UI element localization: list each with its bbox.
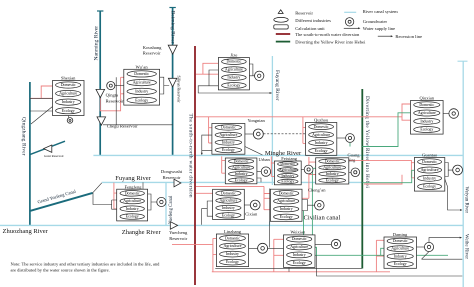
- svg-text:Domestic: Domestic: [226, 60, 241, 64]
- wire Yongnian diagonal recession: [245, 147, 263, 156]
- wire red Guantao feeder: [340, 160, 414, 177]
- svg-text:Industry: Industry: [280, 207, 293, 211]
- svg-text:Agriculture: Agriculture: [219, 199, 237, 203]
- svg-text:Jize: Jize: [230, 52, 237, 57]
- reservoir Qingta Reservoir: [96, 89, 105, 97]
- calculation unit Quzhou: [306, 123, 337, 156]
- wire Urban recession: [257, 178, 261, 182]
- svg-text:Industry: Industry: [423, 176, 436, 180]
- wire Fuyang River line: [102, 181, 363, 183]
- svg-text:Agriculture: Agriculture: [279, 168, 297, 172]
- calculation unit Qiuxian: [411, 101, 444, 135]
- svg-text:Reservoir: Reservoir: [169, 236, 187, 241]
- svg-text:Fengfeng: Fengfeng: [125, 184, 143, 189]
- svg-text:Water supply line: Water supply line: [363, 26, 395, 31]
- svg-text:Domestic: Domestic: [393, 239, 408, 243]
- groundwater Quzhou: [346, 134, 355, 143]
- wire bottom recession to Yellow line: [215, 267, 361, 269]
- wire Nanming River line: [99, 11, 101, 155]
- calculation unit Cheng'an: [270, 189, 302, 221]
- svg-text:Ecology: Ecology: [222, 148, 235, 152]
- arrowhead Yongnian recession: [201, 153, 203, 155]
- svg-text:Diverting the Yellow River int: Diverting the Yellow River into Hebei: [364, 96, 370, 188]
- svg-text:Siliyan Reservoir: Siliyan Reservoir: [177, 76, 181, 104]
- wire green Daming feeder: [381, 248, 384, 255]
- svg-text:Agriculture: Agriculture: [232, 166, 250, 170]
- svg-text:Ecology: Ecology: [227, 84, 240, 88]
- wire Cixian bracket: [202, 201, 213, 225]
- svg-text:Beiming River: Beiming River: [169, 11, 175, 44]
- svg-text:Domestic: Domestic: [234, 159, 249, 163]
- svg-text:Urban: Urban: [259, 157, 271, 162]
- wire Daming recession to Weihe: [422, 252, 463, 260]
- calculation unit Guantao: [414, 158, 444, 192]
- svg-text:Industry: Industry: [222, 141, 235, 145]
- svg-text:Industry: Industry: [326, 172, 339, 176]
- wire canal to Fuyang link: [93, 183, 102, 193]
- wire Feixiang groundwater link: [301, 169, 304, 171]
- svg-text:Weiyun River: Weiyun River: [464, 187, 469, 214]
- wire red Weixian feeder: [274, 239, 284, 271]
- svg-text:Civilian canal: Civilian canal: [304, 215, 341, 222]
- svg-text:Agriculture: Agriculture: [225, 68, 243, 72]
- legend water supply swatch: [344, 27, 359, 29]
- svg-text:Koushang: Koushang: [143, 45, 162, 50]
- svg-text:Agriculture: Agriculture: [224, 244, 242, 248]
- legend recession swatch: [378, 35, 392, 37]
- svg-text:Weihe River: Weihe River: [464, 234, 469, 259]
- svg-text:Industry: Industry: [227, 76, 240, 80]
- wire Linzhang-Weixian groundwater link: [249, 247, 284, 249]
- svg-text:Shexian: Shexian: [61, 76, 76, 81]
- svg-text:Agriculture: Agriculture: [123, 199, 141, 203]
- wire Zhuozhang-Zhanghe river line: [0, 224, 463, 226]
- svg-text:Domestic: Domestic: [292, 237, 307, 241]
- reservoir Siliyan Reservoir: [168, 78, 176, 87]
- wire Fengfeng right bracket: [148, 194, 157, 210]
- wire Shexian groundwater link: [68, 116, 70, 118]
- wire Jize bracket: [198, 70, 272, 93]
- svg-text:Ecology: Ecology: [293, 261, 306, 265]
- calculation unit Yongnian: [212, 124, 245, 155]
- legend calculation unit symbol: [274, 25, 288, 29]
- wire Weiyun-Weihe river line: [462, 61, 464, 287]
- svg-text:Agriculture: Agriculture: [290, 245, 308, 249]
- svg-text:Domestic: Domestic: [225, 236, 240, 240]
- svg-text:Domestic: Domestic: [280, 162, 295, 166]
- wire Minghe River line: [93, 154, 462, 156]
- groundwater Daming: [424, 242, 433, 251]
- svg-text:Gutai Reservoir: Gutai Reservoir: [44, 154, 64, 158]
- calculation unit Shexian: [53, 81, 85, 116]
- svg-text:Reservoir: Reservoir: [163, 175, 181, 180]
- wire red Quzhou feeder: [303, 117, 306, 144]
- svg-text:Guang: Guang: [348, 153, 361, 158]
- wire Wu'an lower bracket: [115, 77, 117, 125]
- svg-text:Wu’an: Wu’an: [136, 64, 149, 69]
- calculation unit Urban: [225, 158, 257, 184]
- svg-text:Ecology: Ecology: [326, 179, 339, 183]
- wire diverting Yellow River line: [361, 89, 363, 269]
- svg-text:Quzhou: Quzhou: [314, 118, 329, 123]
- reservoir Yuecheng Reservoir: [170, 222, 177, 230]
- svg-text:Agriculture: Agriculture: [312, 133, 330, 137]
- calculation unit Feixiang: [274, 161, 301, 185]
- wire Civilian canal line: [271, 56, 273, 185]
- svg-text:Domestic: Domestic: [61, 83, 76, 87]
- svg-text:Feixiang: Feixiang: [281, 156, 297, 161]
- wire Yongnian bracket: [202, 135, 212, 155]
- svg-text:Yongnian: Yongnian: [248, 118, 266, 123]
- wire red Linzhang feeder: [172, 238, 216, 271]
- calculation unit Daming: [384, 237, 417, 268]
- svg-text:Weixian: Weixian: [290, 230, 306, 235]
- groundwater Guangping: [351, 168, 360, 177]
- svg-text:Agriculture: Agriculture: [421, 168, 439, 172]
- svg-text:Ecology: Ecology: [280, 215, 293, 219]
- svg-text:Industry: Industry: [226, 252, 239, 256]
- svg-text:Industry: Industry: [62, 100, 75, 104]
- svg-text:Agriculture: Agriculture: [277, 199, 295, 203]
- groundwater Yongnian: [253, 129, 263, 139]
- svg-text:Yuefeng Canal: Yuefeng Canal: [169, 195, 174, 224]
- wire Chengan groundwater bracket: [302, 200, 315, 211]
- svg-text:Industry: Industry: [235, 172, 248, 176]
- svg-text:Industry: Industry: [222, 206, 235, 210]
- wire red Daming feeder: [376, 240, 384, 271]
- wire green Weixian feeder: [315, 247, 317, 255]
- wire Wu'an groundwater link: [115, 85, 124, 87]
- groundwater Feixiang: [304, 165, 313, 174]
- svg-text:Recession line: Recession line: [395, 34, 422, 39]
- svg-text:Ecology: Ecology: [226, 260, 239, 264]
- groundwater Jize: [255, 71, 264, 80]
- svg-text:Ecology: Ecology: [235, 178, 248, 182]
- wire red trunk Chengan: [196, 186, 270, 209]
- svg-text:Industry: Industry: [420, 119, 433, 123]
- wire south-to-north diversion line: [194, 46, 196, 285]
- groundwater Urban: [261, 167, 270, 176]
- svg-text:Agriculture: Agriculture: [418, 111, 436, 115]
- wire red Qiuxian feeder: [402, 104, 411, 120]
- wire Guangping groundwater link: [349, 171, 351, 173]
- wire Nanming top tick: [97, 10, 103, 12]
- wire green Quzhou groundwater link: [349, 143, 351, 147]
- groundwater Wu'an: [107, 82, 115, 90]
- svg-text:Agriculture: Agriculture: [323, 166, 341, 170]
- svg-text:Groundwater: Groundwater: [363, 19, 388, 24]
- wire red Cixian feeder: [196, 192, 213, 194]
- calculation unit Guangping: [316, 158, 349, 184]
- arrowhead Guantao recession arrow: [460, 209, 462, 211]
- wire Guantao recession: [445, 179, 462, 210]
- legend industries symbol: [274, 17, 288, 22]
- svg-text:Zhanghe River: Zhanghe River: [122, 229, 162, 236]
- svg-text:Ecology: Ecology: [315, 149, 328, 153]
- svg-text:Ecology: Ecology: [135, 98, 148, 102]
- wire red trunk to Qiuxian: [196, 116, 402, 118]
- calculation unit Fengfeng: [117, 189, 148, 221]
- svg-text:The south-to-north water diver: The south-to-north water diversion: [187, 114, 193, 198]
- svg-text:Diverting the Yellow River int: Diverting the Yellow River into Hebei: [295, 40, 366, 45]
- svg-text:Domestic: Domestic: [221, 191, 236, 195]
- arrowhead Jize recession: [270, 92, 272, 94]
- wire red Shexian feeder: [30, 86, 53, 98]
- wire Guantao groundwater bracket: [445, 163, 453, 177]
- wire red Yongnian feeder: [209, 117, 212, 143]
- arrowhead legend recession arrow: [391, 35, 393, 37]
- svg-text:Ecology: Ecology: [423, 185, 436, 189]
- svg-text:Linzhang: Linzhang: [224, 229, 242, 234]
- svg-text:Fuyang River: Fuyang River: [115, 175, 151, 182]
- svg-text:Dongwushi: Dongwushi: [161, 169, 183, 174]
- reservoir Gutai Reservoir: [44, 145, 52, 152]
- svg-text:Ecology: Ecology: [62, 109, 75, 113]
- arrowhead legend water supply arrow: [358, 27, 360, 29]
- svg-text:Domestic: Domestic: [221, 126, 236, 130]
- wire Cixian groundwater link: [244, 204, 250, 206]
- wire Fengfeng left bracket: [93, 193, 117, 209]
- calculation unit Cixian: [213, 189, 245, 219]
- legend reservoir symbol: [278, 10, 283, 14]
- svg-text:Domestic: Domestic: [422, 160, 437, 164]
- wire Urban groundwater link: [257, 171, 261, 173]
- wire Grand Yuefeng Canal line: [30, 193, 92, 211]
- svg-text:Guantao: Guantao: [422, 152, 438, 157]
- svg-text:Ecology: Ecology: [222, 213, 235, 217]
- wire Beiming top tick: [169, 7, 175, 9]
- svg-text:Fuyang River: Fuyang River: [274, 70, 280, 101]
- svg-text:Industry: Industry: [126, 207, 139, 211]
- wire green to Guangping agriculture: [312, 168, 315, 255]
- svg-text:Nanming River: Nanming River: [94, 26, 100, 61]
- svg-text:Industry: Industry: [293, 253, 306, 257]
- reservoir Chegu Reservoir: [97, 117, 106, 125]
- svg-text:Agriculture: Agriculture: [59, 92, 77, 96]
- svg-text:Zhuozhang River: Zhuozhang River: [3, 228, 49, 235]
- svg-text:Reservoir: Reservoir: [143, 50, 161, 55]
- groundwater Fengfeng: [157, 197, 166, 206]
- legend yellow-river swatch: [276, 41, 290, 43]
- groundwater Shexian: [67, 118, 73, 124]
- wire Qiuxian groundwater link: [443, 113, 449, 115]
- groundwater Guantao: [453, 165, 463, 175]
- svg-text:Industry: Industry: [135, 90, 148, 94]
- wire red Jize feeder: [196, 63, 218, 74]
- wire Weixian bottom link: [288, 267, 290, 271]
- legend south-to-north swatch: [276, 33, 290, 35]
- reservoir Koushang Reservoir: [168, 45, 177, 54]
- svg-text:Agriculture: Agriculture: [391, 247, 409, 251]
- calculation unit Wu'an: [124, 69, 160, 105]
- wire Yongnian dashed: [264, 133, 306, 135]
- wire green bottom trunk: [298, 254, 448, 256]
- svg-text:ping: ping: [348, 159, 355, 163]
- svg-text:Agriculture: Agriculture: [219, 133, 237, 137]
- svg-text:Domestic: Domestic: [134, 72, 149, 76]
- svg-text:Cixian: Cixian: [245, 212, 258, 217]
- groundwater Cixian: [250, 200, 260, 210]
- wire Weixian recession to Weihe: [317, 255, 463, 276]
- svg-text:Qingzhang River: Qingzhang River: [20, 117, 26, 156]
- wire civilian canal stub: [269, 221, 271, 225]
- svg-text:are distributed by the water s: are distributed by the water source show…: [11, 268, 110, 273]
- wire Beiming River line: [172, 8, 174, 156]
- wire Quzhou groundwater link2: [337, 137, 346, 139]
- wire Wu'an to Siliyan: [160, 77, 170, 94]
- wire red Guangping-Chengan link: [264, 197, 309, 199]
- wire red Qingta to Wu'an: [100, 77, 124, 111]
- svg-text:Different industries: Different industries: [295, 18, 331, 23]
- wire Urban-Cixian recession south: [268, 189, 270, 248]
- svg-text:Industry: Industry: [281, 174, 294, 178]
- svg-text:Chegu Reservoir: Chegu Reservoir: [107, 124, 138, 129]
- wire Qingzhang River line: [29, 82, 31, 225]
- svg-text:Industry: Industry: [394, 254, 407, 258]
- svg-text:Reservoir: Reservoir: [295, 11, 313, 16]
- wire Jize groundwater link: [249, 64, 254, 76]
- wire red Feixiang feeder: [271, 156, 274, 176]
- reservoir Dongwushi Reservoir: [174, 179, 181, 187]
- svg-text:Calculation unit: Calculation unit: [295, 26, 325, 31]
- svg-text:Reservoir: Reservoir: [106, 98, 124, 103]
- svg-text:Qingta: Qingta: [106, 92, 119, 97]
- wire red Urban feeder: [222, 156, 226, 173]
- svg-text:Agriculture: Agriculture: [133, 81, 151, 85]
- wire Weixian groundwater link: [315, 243, 331, 245]
- wire Gutai tributary: [30, 141, 65, 154]
- wire Daming recession: [429, 238, 461, 243]
- svg-text:Cheng’an: Cheng’an: [308, 187, 326, 192]
- groundwater Cheng'an: [315, 200, 325, 210]
- calculation unit Jize: [218, 58, 249, 90]
- svg-text:Daming: Daming: [393, 232, 408, 237]
- arrowhead Daming recession arrow: [460, 237, 462, 239]
- svg-text:Domestic: Domestic: [279, 191, 294, 195]
- svg-text:Ecology: Ecology: [394, 262, 407, 266]
- wire Yuefeng Canal line: [165, 182, 167, 225]
- calculation unit Linzhang: [216, 234, 248, 267]
- groundwater Weixian: [331, 239, 340, 248]
- wire green to Qiuxian agriculture: [362, 113, 410, 147]
- groundwater legend: [345, 18, 353, 26]
- wire Chegu outflow: [103, 124, 173, 126]
- svg-text:Ecology: Ecology: [126, 215, 139, 219]
- legend river canal swatch: [344, 11, 356, 13]
- wire red Fengfeng feeder: [114, 183, 117, 209]
- svg-text:Domestic: Domestic: [325, 159, 340, 163]
- svg-text:Domestic: Domestic: [419, 103, 434, 107]
- wire red Guantao lower: [364, 175, 402, 184]
- wire green to Chengan: [303, 211, 305, 256]
- wire Weiyun top tick: [458, 60, 468, 62]
- svg-text:Qiuxian: Qiuxian: [420, 95, 435, 100]
- wire Shexian to Qingzhang links: [30, 98, 53, 124]
- groundwater Linzhang: [258, 243, 268, 253]
- svg-text:River canal system: River canal system: [363, 9, 398, 14]
- svg-text:Yuecheng: Yuecheng: [169, 230, 188, 235]
- wire Yongnian groundwater link: [245, 133, 253, 135]
- wire red bottom trunk: [212, 271, 390, 273]
- svg-text:The south-to-north water diver: The south-to-north water diversion: [295, 32, 360, 37]
- wire red Guangping feeder: [309, 157, 316, 198]
- groundwater Qiuxian: [449, 109, 459, 119]
- svg-text:Domestic: Domestic: [314, 125, 329, 129]
- svg-text:Ecology: Ecology: [281, 180, 294, 184]
- wire green to Guantao: [362, 170, 414, 182]
- svg-text:Industry: Industry: [315, 141, 328, 145]
- wire Fengfeng top link: [142, 182, 144, 189]
- calculation unit Weixian: [284, 235, 316, 268]
- wire Daming groundwater link: [417, 246, 425, 248]
- svg-text:Ecology: Ecology: [420, 128, 433, 132]
- svg-text:Domestic: Domestic: [125, 191, 140, 195]
